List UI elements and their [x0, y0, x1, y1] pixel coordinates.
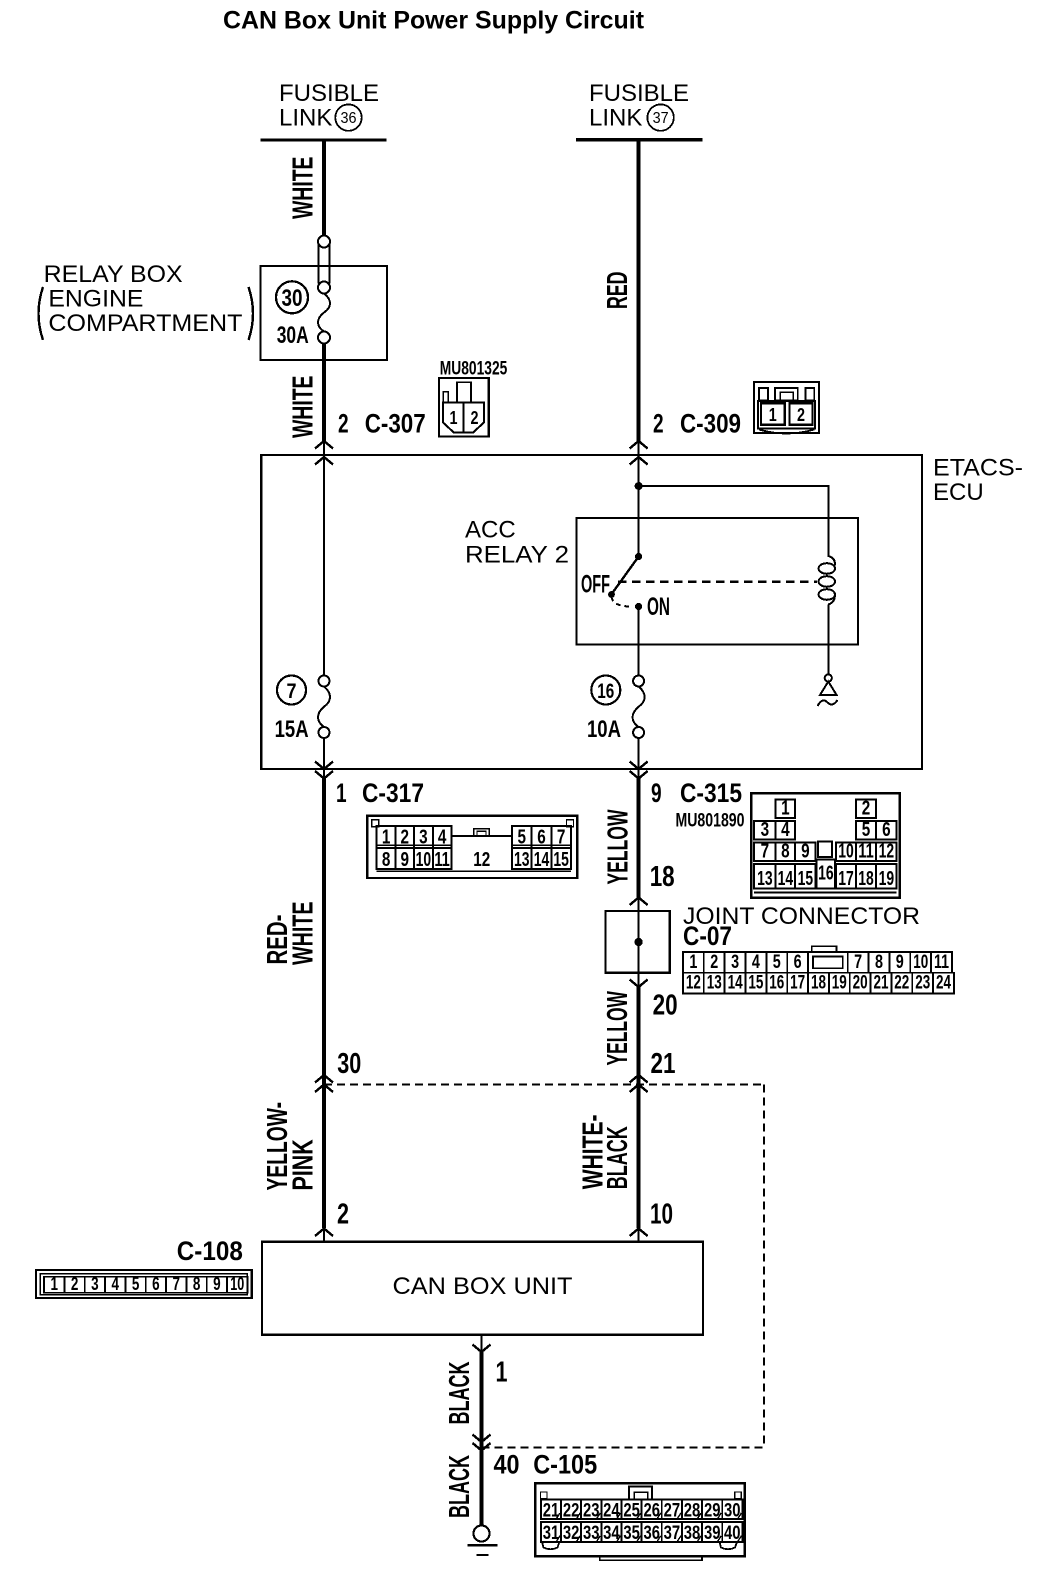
svg-text:COMPARTMENT: COMPARTMENT	[48, 310, 242, 337]
svg-text:14: 14	[728, 973, 743, 994]
C-315 pin 18	[856, 864, 876, 889]
C-07 pin 19	[829, 973, 850, 994]
svg-text:C-317: C-317	[362, 778, 424, 808]
C-108 pin 1	[44, 1277, 64, 1293]
CAN BOX UNIT box	[262, 1242, 703, 1335]
C-105 right foot	[720, 1542, 738, 1549]
C-105 pin 28	[682, 1500, 702, 1520]
svg-text:6: 6	[537, 827, 546, 849]
wire YELLOW from joint connector	[637, 987, 641, 1228]
svg-text:40: 40	[494, 1450, 520, 1480]
svg-text:2: 2	[710, 952, 718, 973]
C-07 pin 24	[933, 973, 954, 994]
C-315 pin 2	[856, 800, 876, 819]
svg-text:16: 16	[597, 680, 614, 703]
wire from coil to ground	[827, 605, 829, 675]
C-108 pin 4	[105, 1277, 125, 1293]
svg-text:8: 8	[781, 841, 790, 863]
svg-text:LINK: LINK	[279, 104, 332, 131]
C-315 pin 10	[836, 843, 856, 862]
svg-text:RELAY BOX: RELAY BOX	[44, 261, 183, 288]
C-07 pin 18	[808, 973, 829, 994]
wire label YELLOW-PINK	[262, 1102, 319, 1191]
fusible link element in relay box	[318, 236, 330, 294]
dashed harness boundary top	[324, 1084, 764, 1086]
svg-text:18: 18	[811, 973, 826, 994]
svg-text:9: 9	[801, 841, 810, 863]
C-07 pin 15	[746, 973, 767, 994]
C-07 pin 8	[869, 952, 890, 973]
C-07 pin 14	[725, 973, 746, 994]
svg-text:13: 13	[514, 849, 530, 871]
C-105 left foot	[542, 1542, 559, 1549]
connector C-108 pinout diagram	[36, 1270, 252, 1298]
svg-text:3: 3	[761, 819, 770, 841]
svg-text:11: 11	[434, 849, 450, 871]
relay switch arm	[612, 557, 639, 594]
wire through joint connector	[638, 911, 640, 973]
svg-text:30: 30	[282, 285, 303, 312]
C-315 pin 16	[817, 860, 836, 889]
svg-text:2: 2	[338, 409, 349, 439]
C-105 pin 33	[581, 1522, 601, 1542]
arrow leaving CAN BOX UNIT	[473, 1345, 491, 1353]
C-315 pin 11	[856, 843, 876, 862]
joint connector junction node	[634, 938, 642, 946]
wire from fuse 16 to box edge	[638, 738, 640, 769]
svg-text:14: 14	[534, 849, 550, 871]
svg-text:4: 4	[781, 819, 790, 841]
C-07 pin 22	[891, 973, 912, 994]
svg-text:CAN BOX UNIT: CAN BOX UNIT	[393, 1273, 573, 1300]
arrow leaving ETACS-ECU right wire	[630, 762, 648, 770]
C-07 pin 5	[766, 952, 787, 973]
svg-text:7: 7	[287, 680, 297, 703]
svg-text:WHITE: WHITE	[288, 902, 320, 966]
svg-text:7: 7	[172, 1274, 180, 1294]
svg-text:RED: RED	[602, 272, 634, 310]
arrow into joint connector	[630, 898, 648, 906]
svg-text:2: 2	[471, 408, 479, 428]
connector C-105 pinout diagram	[535, 1483, 744, 1560]
svg-text:6: 6	[882, 819, 891, 841]
C-108 pin 9	[207, 1277, 227, 1293]
C-105 pin 39	[702, 1522, 722, 1542]
C-105 pin 34	[601, 1522, 621, 1542]
C-108 pin 8	[186, 1277, 206, 1293]
wire BLACK from CAN BOX UNIT	[480, 1352, 484, 1525]
fusible link 36 label	[279, 80, 379, 132]
fuse 7 element	[318, 676, 330, 739]
C-108 pin 2	[64, 1277, 84, 1293]
svg-text:1: 1	[51, 1274, 59, 1294]
C-07 pin 13	[704, 973, 725, 994]
svg-text:ACC: ACC	[465, 517, 516, 544]
svg-text:19: 19	[879, 868, 895, 890]
fuse 30 designator circle	[276, 281, 308, 313]
C-105 pin 22	[561, 1500, 581, 1520]
ON contact	[635, 603, 642, 610]
dashed harness boundary right	[763, 1085, 765, 1448]
svg-text:18: 18	[650, 861, 675, 893]
C-105 bottom tab	[600, 1556, 702, 1560]
C-108 pin 6	[146, 1277, 166, 1293]
svg-text:15: 15	[798, 868, 814, 890]
relay box label	[39, 261, 254, 340]
dashed harness boundary bottom	[482, 1446, 765, 1448]
svg-text:1: 1	[769, 405, 777, 425]
C-315 pin 4	[776, 821, 796, 840]
svg-text:20: 20	[853, 973, 868, 994]
ground symbol inside ETACS	[818, 674, 838, 706]
C-07 pin 10	[910, 952, 931, 973]
arrow leaving ETACS-ECU left wire	[315, 762, 333, 770]
svg-text:13: 13	[757, 868, 773, 890]
svg-text:10: 10	[416, 849, 432, 871]
svg-text:4: 4	[752, 952, 760, 973]
arrows at harness boundary on left wire	[315, 1075, 333, 1083]
connector C-309 icon	[754, 382, 819, 434]
C-07 pin 17	[787, 973, 808, 994]
svg-text:13: 13	[707, 973, 722, 994]
junction node on red wire branch to relay coil	[635, 482, 643, 490]
svg-text:ON: ON	[647, 593, 670, 621]
C-105 pin 21	[541, 1500, 561, 1520]
C-07 pin 20	[850, 973, 871, 994]
C-105 pin 25	[622, 1500, 642, 1520]
svg-text:BLACK: BLACK	[444, 1455, 476, 1518]
svg-text:4: 4	[438, 827, 447, 849]
svg-text:8: 8	[875, 952, 883, 973]
arrow into CAN BOX UNIT left	[315, 1229, 333, 1237]
svg-text:21: 21	[874, 973, 889, 994]
svg-text:CAN Box Unit Power Supply Circ: CAN Box Unit Power Supply Circuit	[223, 7, 645, 35]
C-105 pin 24	[601, 1500, 621, 1520]
svg-text:WHITE: WHITE	[287, 376, 319, 439]
svg-text:C-07: C-07	[683, 921, 732, 951]
C-315 pin 15	[795, 864, 815, 889]
connector C-307 icon MU801325	[439, 358, 508, 436]
svg-text:7: 7	[557, 827, 566, 849]
svg-text:1: 1	[781, 798, 790, 820]
svg-text:15: 15	[748, 973, 763, 994]
arrows at harness boundary on ground wire	[473, 1435, 491, 1443]
svg-text:1: 1	[689, 952, 697, 973]
svg-text:WHITE: WHITE	[287, 157, 319, 220]
C-315 pin 5	[856, 821, 876, 840]
svg-text:5: 5	[862, 819, 871, 841]
svg-text:6: 6	[794, 952, 802, 973]
wire from fuse 7 to box edge	[323, 738, 325, 769]
arrow at ETACS-ECU edge on white wire	[315, 457, 333, 465]
arrow below ETACS-ECU right wire	[630, 771, 648, 779]
ACC RELAY 2 inner box	[576, 518, 858, 644]
fuse 16 designator circle	[591, 676, 620, 705]
C-07 pin 1	[683, 952, 704, 973]
ETACS-ECU label	[933, 455, 1023, 507]
svg-text:9: 9	[213, 1274, 221, 1294]
C-105 pin 36	[642, 1522, 662, 1542]
svg-text:BLACK: BLACK	[444, 1361, 476, 1424]
svg-text:19: 19	[832, 973, 847, 994]
svg-text:2: 2	[797, 405, 805, 425]
svg-text:C-105: C-105	[533, 1450, 597, 1480]
svg-text:30: 30	[337, 1048, 361, 1080]
fusible link 37 label	[589, 80, 689, 132]
svg-text:ETACS-: ETACS-	[933, 455, 1023, 482]
svg-text:17: 17	[790, 973, 805, 994]
wire inside ETACS from C-309 to relay contact	[638, 457, 640, 557]
svg-text:12: 12	[879, 841, 895, 863]
svg-text:24: 24	[936, 973, 951, 994]
svg-text:11: 11	[934, 952, 949, 973]
wire from ON contact to fuse 16	[638, 607, 640, 677]
C-07 pin 23	[912, 973, 933, 994]
C-07 pin 21	[871, 973, 892, 994]
svg-text:12: 12	[686, 973, 701, 994]
wire branch to relay coil	[639, 486, 829, 557]
svg-text:2: 2	[71, 1274, 79, 1294]
wire WHITE from fusible link 36	[322, 140, 326, 236]
svg-text:5: 5	[132, 1274, 140, 1294]
svg-text:10: 10	[913, 952, 928, 973]
C-07 pin 2	[704, 952, 725, 973]
joint connector label	[683, 903, 920, 951]
connector C-317 pinout diagram	[367, 816, 577, 878]
svg-text:9: 9	[401, 849, 410, 871]
C-315 pin 1	[776, 800, 796, 819]
wire label RED-WHITE	[262, 902, 320, 966]
dashed link from switch to coil	[618, 581, 817, 583]
svg-text:1: 1	[496, 1357, 508, 1389]
svg-text:2: 2	[337, 1199, 349, 1231]
C-108 pin 10	[227, 1277, 247, 1293]
svg-text:FUSIBLE: FUSIBLE	[279, 80, 379, 107]
C-315 pin 17	[836, 864, 856, 889]
arrow at ETACS-ECU edge on red wire	[630, 457, 648, 465]
svg-text:1: 1	[382, 827, 391, 849]
C-315 pin 12	[876, 843, 897, 862]
C-108 pin 7	[166, 1277, 186, 1293]
C-105 pin 35	[622, 1522, 642, 1542]
svg-text:14: 14	[778, 868, 794, 890]
C-105 pin 29	[702, 1500, 722, 1520]
svg-text:37: 37	[653, 110, 669, 127]
C-108 pin 5	[125, 1277, 145, 1293]
relay box (engine compartment) outline	[261, 266, 388, 360]
C-315 pin 9	[795, 843, 815, 862]
svg-text:10: 10	[838, 841, 854, 863]
svg-text:18: 18	[858, 868, 874, 890]
arrow into ETACS-ECU on white wire	[315, 441, 333, 449]
C-105 pin 27	[662, 1500, 682, 1520]
connector C-315 pinout diagram	[751, 793, 900, 898]
svg-text:10: 10	[650, 1199, 673, 1231]
fuse 30 element	[318, 294, 330, 344]
svg-text:7: 7	[854, 952, 862, 973]
svg-text:2: 2	[862, 798, 871, 820]
svg-text:8: 8	[382, 849, 391, 871]
wire RED from fusible link 37 to ETACS-ECU	[637, 140, 641, 441]
svg-text:30A: 30A	[277, 322, 309, 349]
relay switch top contact	[635, 553, 642, 560]
svg-text:6: 6	[152, 1274, 160, 1294]
C-315 key tab	[818, 842, 832, 858]
svg-text:C-307: C-307	[365, 409, 426, 439]
wire RED-WHITE from ETACS-ECU	[322, 779, 326, 1229]
svg-text:8: 8	[193, 1274, 201, 1294]
svg-text:YELLOW: YELLOW	[602, 991, 634, 1066]
svg-text:9: 9	[896, 952, 904, 973]
svg-text:12: 12	[473, 849, 490, 871]
svg-text:3: 3	[419, 827, 428, 849]
C-07 pin 11	[931, 952, 952, 973]
C-07 key cell	[808, 952, 848, 973]
svg-text:22: 22	[894, 973, 909, 994]
C-315 pin 14	[776, 864, 796, 889]
C-07 pin 16	[766, 973, 787, 994]
C-105 pin 37	[662, 1522, 682, 1542]
C-07 pin 3	[725, 952, 746, 973]
C-105 pin 30	[722, 1500, 742, 1520]
svg-text:YELLOW: YELLOW	[602, 809, 634, 884]
svg-text:16: 16	[769, 973, 784, 994]
svg-text:11: 11	[858, 841, 874, 863]
svg-text:C-315: C-315	[680, 778, 742, 808]
svg-text:16: 16	[818, 863, 834, 885]
svg-text:FUSIBLE: FUSIBLE	[589, 80, 689, 107]
dashed travel arc to ON contact	[612, 597, 632, 607]
svg-text:ECU: ECU	[933, 479, 984, 506]
svg-text:36: 36	[341, 110, 357, 127]
C-105 pin 32	[561, 1522, 581, 1542]
C-105 pin 31	[541, 1522, 561, 1542]
fusible link 36 bus bar	[261, 138, 387, 141]
svg-text:9: 9	[651, 778, 662, 808]
C-315 pin 7	[754, 843, 775, 862]
C-315 pin 6	[876, 821, 897, 840]
svg-text:3: 3	[731, 952, 739, 973]
ETACS-ECU box	[261, 455, 922, 769]
C-105 pin 40	[722, 1522, 742, 1542]
C-315 pin 3	[754, 821, 775, 840]
wire WHITE from relay box to ETACS-ECU	[322, 344, 326, 442]
arrow leaving joint connector	[630, 980, 648, 988]
svg-text:1: 1	[450, 408, 458, 428]
arrow below ETACS-ECU left wire	[315, 771, 333, 779]
svg-text:1: 1	[336, 778, 347, 808]
relay coil	[819, 556, 835, 605]
ACC RELAY 2 label	[465, 517, 569, 569]
C-105 pin 38	[682, 1522, 702, 1542]
C-105 pin 26	[642, 1500, 662, 1520]
svg-text:10A: 10A	[587, 716, 621, 743]
relay switch pivot contact	[608, 591, 615, 598]
svg-text:C-108: C-108	[177, 1236, 243, 1266]
svg-text:C-309: C-309	[680, 409, 741, 439]
svg-text:PINK: PINK	[287, 1139, 319, 1190]
svg-text:23: 23	[915, 973, 930, 994]
svg-text:OFF: OFF	[581, 570, 610, 598]
chassis ground symbol	[468, 1526, 498, 1556]
svg-text:2: 2	[401, 827, 410, 849]
C-07 pin 7	[848, 952, 869, 973]
wire label WHITE-BLACK	[577, 1115, 634, 1190]
joint connector C-07 box	[606, 911, 670, 973]
svg-text:MU801890: MU801890	[676, 811, 745, 832]
C-315 pin 8	[776, 843, 796, 862]
fusible link 37 bus bar	[576, 138, 702, 141]
svg-text:15: 15	[553, 849, 569, 871]
fuse 7 designator circle	[277, 676, 306, 705]
connector C-07 pinout diagram	[683, 946, 954, 993]
svg-text:ENGINE: ENGINE	[48, 285, 143, 312]
svg-text:17: 17	[838, 868, 854, 890]
arrows at harness boundary on right wire	[630, 1075, 648, 1083]
svg-text:5: 5	[518, 827, 527, 849]
C-07 pin 6	[787, 952, 808, 973]
wire YELLOW from ETACS to joint connector	[637, 779, 641, 898]
svg-text:MU801325: MU801325	[440, 358, 508, 379]
svg-text:BLACK: BLACK	[602, 1126, 634, 1189]
svg-text:15A: 15A	[275, 716, 309, 743]
arrow into CAN BOX UNIT right	[630, 1229, 648, 1237]
C-07 pin 4	[746, 952, 767, 973]
C-315 pin 13	[754, 864, 775, 889]
arrow into ETACS-ECU on red wire	[630, 441, 648, 449]
svg-text:4: 4	[112, 1274, 120, 1294]
svg-text:2: 2	[653, 409, 664, 439]
C-07 pin 9	[889, 952, 910, 973]
wire inside ETACS from C-307 to fuse 7	[323, 457, 325, 676]
svg-text:RELAY 2: RELAY 2	[465, 541, 569, 568]
svg-text:LINK: LINK	[589, 104, 642, 131]
svg-text:10: 10	[230, 1274, 244, 1294]
C-315 pin 19	[876, 864, 897, 889]
svg-text:3: 3	[91, 1274, 99, 1294]
svg-text:7: 7	[761, 841, 770, 863]
C-108 pin 3	[85, 1277, 105, 1293]
C-105 pin 23	[581, 1500, 601, 1520]
svg-text:20: 20	[653, 990, 678, 1022]
C-07 key tab	[812, 946, 837, 952]
C-07 pin 12	[683, 973, 704, 994]
svg-text:5: 5	[773, 952, 781, 973]
fuse 16 element	[633, 676, 645, 739]
svg-text:21: 21	[651, 1048, 676, 1080]
